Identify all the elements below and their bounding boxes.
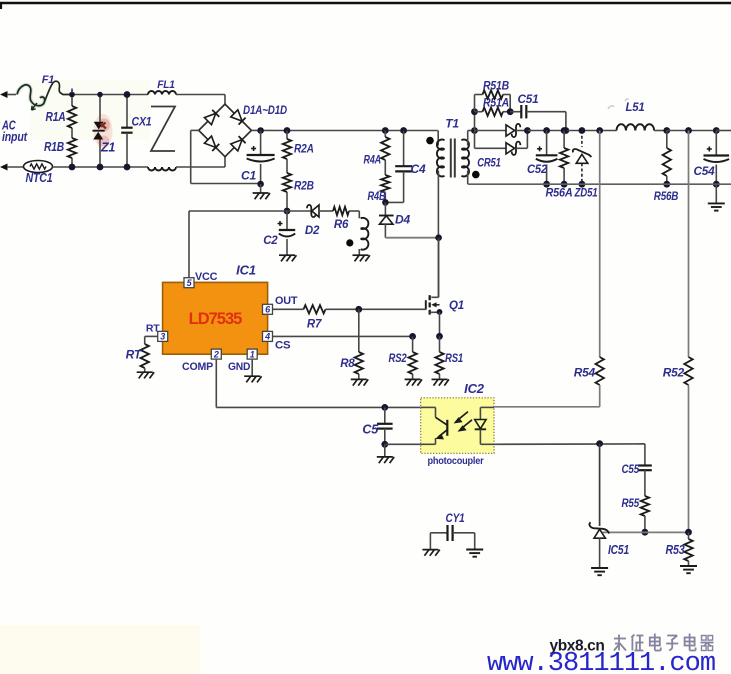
label R53 xyxy=(666,542,686,557)
junction node CR51 cathode xyxy=(524,127,531,134)
label R4B xyxy=(368,191,386,203)
label R7 xyxy=(307,319,322,331)
svg-text:C54: C54 xyxy=(694,164,716,178)
label R6 xyxy=(334,219,349,231)
svg-text:CY1: CY1 xyxy=(446,511,465,525)
inductor FL1 bottom winding xyxy=(148,167,176,171)
wire CS line xyxy=(273,335,413,337)
svg-text:CX1: CX1 xyxy=(132,117,152,129)
capacitor C5 xyxy=(377,407,393,444)
svg-text:COMP: COMP xyxy=(182,361,213,373)
ground under C54 xyxy=(708,184,725,210)
thermistor NTC1 xyxy=(24,161,73,173)
ground under RS2 xyxy=(405,379,422,385)
label R1A xyxy=(46,110,66,124)
label C54 xyxy=(694,164,716,178)
resistor R4A xyxy=(381,131,389,176)
svg-text:3: 3 xyxy=(160,332,165,342)
ground under RS1 xyxy=(432,379,449,385)
T1 core xyxy=(451,139,455,178)
junction node C52 bottom xyxy=(543,181,550,188)
resistor R56B xyxy=(663,131,671,185)
pin 6 OUT xyxy=(263,304,273,314)
junction node ZD51 bottom xyxy=(579,181,586,188)
junction node VCC feed xyxy=(284,208,291,215)
wire COMP down xyxy=(216,360,420,408)
wire R54 feed xyxy=(599,131,601,358)
svg-text:R1A: R1A xyxy=(46,110,66,124)
T1 primary phase dot xyxy=(426,137,434,145)
label R2A xyxy=(294,144,314,156)
svg-text:2: 2 xyxy=(213,349,219,359)
wire output rail xyxy=(527,130,616,132)
junction node CX1 top xyxy=(124,91,131,98)
label Z1 xyxy=(100,141,115,155)
capacitor CY1 xyxy=(430,525,474,549)
svg-text:R52: R52 xyxy=(663,366,685,380)
label CR51 xyxy=(477,156,501,170)
svg-text:R8: R8 xyxy=(340,358,355,370)
svg-text:VCC: VCC xyxy=(195,271,218,283)
junction node R56B bottom xyxy=(663,181,670,188)
junction node F1-R1A xyxy=(69,89,75,98)
ground under R53 xyxy=(680,566,697,573)
zener ZD51 xyxy=(573,131,591,185)
capacitor C55 xyxy=(638,466,652,497)
label R56B xyxy=(654,189,679,203)
resistor R2B xyxy=(283,173,291,211)
svg-text:R51B: R51B xyxy=(483,81,509,93)
wire R56B to C54 rail xyxy=(667,130,717,132)
capacitor C51 xyxy=(510,105,566,131)
junction node C52 top xyxy=(543,127,550,134)
svg-text:www.3811111.com: www.3811111.com xyxy=(487,649,715,674)
svg-text:input: input xyxy=(2,130,28,144)
wire bottom AC line xyxy=(72,166,148,168)
label NTC1 xyxy=(26,171,53,185)
label R1B xyxy=(44,140,64,154)
svg-text:NTC1: NTC1 xyxy=(26,171,53,185)
label C51 xyxy=(518,92,540,106)
svg-text:R2B: R2B xyxy=(294,181,314,193)
resistor R54 xyxy=(596,357,604,407)
junction node R56B top xyxy=(663,127,670,134)
label RS2 xyxy=(389,353,408,365)
label R55 xyxy=(622,496,640,510)
watermark ybx8.cn xyxy=(550,638,605,655)
wire R52 feed xyxy=(688,131,690,358)
label CX1 xyxy=(132,117,152,129)
wire secondary return rail xyxy=(468,183,731,185)
varistor Z1 highlight xyxy=(94,114,113,148)
junction node R2A top xyxy=(284,127,291,134)
wire CR51 lower branch xyxy=(475,131,506,149)
label C4 xyxy=(411,162,426,176)
T1 auxiliary winding xyxy=(359,211,368,255)
ground under R8 xyxy=(351,379,368,385)
svg-text:R56A: R56A xyxy=(546,186,573,200)
svg-text:C52: C52 xyxy=(527,162,547,176)
wire secondary rail left xyxy=(475,130,506,132)
junction node ZD51 top xyxy=(579,127,586,134)
label C1 xyxy=(241,169,256,183)
wire drain junction to Q1 xyxy=(438,238,440,298)
resistor R1A xyxy=(68,95,76,139)
capacitor CX1 xyxy=(121,95,132,168)
svg-text:R1B: R1B xyxy=(44,140,64,154)
svg-text:LD7535: LD7535 xyxy=(189,310,243,328)
wire L51 to R56B xyxy=(654,130,667,132)
inductor FL1 top winding xyxy=(148,91,176,94)
junction node R54 tap xyxy=(596,127,603,134)
junction node C1 top xyxy=(257,127,264,134)
label ZD51 xyxy=(574,186,598,200)
resistor RS1 xyxy=(435,336,443,378)
aux winding phase dot xyxy=(346,239,353,246)
label CY1 xyxy=(446,511,465,525)
resistor R7 xyxy=(304,305,326,313)
border frame top xyxy=(0,2,731,9)
svg-text:R4A: R4A xyxy=(364,155,382,167)
svg-text:IC51: IC51 xyxy=(608,542,629,557)
svg-text:1: 1 xyxy=(250,349,255,359)
svg-text:CS: CS xyxy=(275,340,290,352)
svg-text:C55: C55 xyxy=(622,462,640,476)
junction node Z1 bottom xyxy=(97,164,104,171)
junction node R1B bottom xyxy=(69,164,76,171)
resistor R6 xyxy=(333,207,359,215)
wire C55 branch down xyxy=(644,444,646,466)
junction node source xyxy=(436,333,443,340)
svg-text:RS1: RS1 xyxy=(445,353,463,365)
svg-text:IC2: IC2 xyxy=(464,381,485,396)
label C52 xyxy=(527,162,547,176)
label AC input xyxy=(1,119,28,145)
resistor R51B xyxy=(475,90,511,111)
resistor RS2 xyxy=(408,336,416,378)
wire snubber vertical left xyxy=(474,112,476,131)
AC input terminal top arrow xyxy=(0,91,16,98)
capacitor C52 xyxy=(536,131,558,185)
resistor RT xyxy=(141,344,149,372)
label L51 xyxy=(608,99,645,114)
inductor L51 xyxy=(617,124,655,130)
resistor R55 xyxy=(641,496,649,532)
label Q1 xyxy=(449,300,464,312)
resistor R51A xyxy=(475,108,511,116)
wire VCC vertical to pin5 xyxy=(188,211,190,277)
ground under CY1 left xyxy=(422,550,439,556)
label CS xyxy=(275,340,290,352)
svg-text:C51: C51 xyxy=(518,92,540,106)
ground under IC51 xyxy=(591,568,608,575)
bridge diode D1A (top-left edge) xyxy=(204,110,219,125)
svg-text:C5: C5 xyxy=(362,423,379,437)
label COMP xyxy=(182,361,213,373)
wire T1 secondary bottom feed xyxy=(467,171,469,185)
label D2 xyxy=(305,225,320,237)
wire rail to right edge xyxy=(716,130,731,132)
svg-text:GND: GND xyxy=(228,361,251,373)
label R8 xyxy=(340,358,355,370)
capacitor C4 xyxy=(385,131,412,203)
label IC1 xyxy=(236,263,256,278)
junction node RS2 top xyxy=(409,333,416,340)
rectifier CR51 top diode xyxy=(506,124,527,137)
label RS1 xyxy=(445,353,463,365)
svg-text:R7: R7 xyxy=(307,319,322,331)
photocoupler transistor xyxy=(421,407,448,444)
svg-text:C1: C1 xyxy=(241,169,256,183)
wire pin6 to R7 xyxy=(273,308,304,310)
label R51B xyxy=(483,81,509,93)
junction node R4A top xyxy=(382,127,389,134)
wire T1 secondary top feed xyxy=(468,131,475,146)
pin 3 RT xyxy=(158,331,168,341)
label R2B xyxy=(294,181,314,193)
label R52 xyxy=(663,366,685,380)
FL1 core Z symbol xyxy=(151,107,175,152)
junction node C5 bottom xyxy=(381,441,388,448)
wire T1 primary to drain xyxy=(437,171,439,298)
junction node IC51 top xyxy=(596,440,603,447)
fuse F1 xyxy=(17,81,72,110)
junction node secondary top xyxy=(471,127,478,134)
junction node Z1 top xyxy=(97,92,103,98)
pin 5 VCC xyxy=(184,278,194,288)
ground under C5 xyxy=(377,444,394,463)
wire R7 to gate node xyxy=(326,308,359,310)
capacitor C1 xyxy=(247,130,275,183)
IC1 text LD7535 xyxy=(189,310,243,328)
label GND xyxy=(228,361,251,373)
ground under C2 xyxy=(279,255,296,261)
svg-text:RS2: RS2 xyxy=(389,353,408,365)
svg-text:R55: R55 xyxy=(622,496,640,510)
bridge diode D1C (bottom-left edge) xyxy=(204,136,219,151)
bridge diode D1B (top-right edge) xyxy=(231,110,246,125)
svg-text:R6: R6 xyxy=(334,219,349,231)
T1 secondary phase dot xyxy=(472,171,480,179)
junction node C54 bottom xyxy=(713,181,720,188)
junction node C54 top xyxy=(713,127,720,134)
junction node R8 top xyxy=(355,306,362,313)
svg-text:R2A: R2A xyxy=(294,144,314,156)
label R51A xyxy=(483,98,509,110)
ground under aux winding xyxy=(353,255,370,261)
label F1 xyxy=(42,74,55,86)
svg-text:Q1: Q1 xyxy=(449,300,464,312)
label R56A xyxy=(546,186,573,200)
svg-text:photocoupler: photocoupler xyxy=(428,456,484,467)
junction node drain-D4 xyxy=(435,234,442,241)
junction node C4 top xyxy=(400,127,407,134)
label VCC xyxy=(195,271,218,283)
wire gate from R7 xyxy=(359,308,426,310)
svg-text:C4: C4 xyxy=(411,162,426,176)
label RT pin xyxy=(146,323,160,335)
bridge diode D1D (bottom-right edge) xyxy=(231,136,246,151)
label R54 xyxy=(574,366,596,380)
AC input terminal bottom arrow xyxy=(0,164,24,171)
junction node C1 bottom xyxy=(257,181,264,188)
wire bottom AC to bridge xyxy=(176,157,225,167)
svg-text:RT: RT xyxy=(126,348,143,362)
svg-text:RT: RT xyxy=(146,323,160,335)
junction node snubber left xyxy=(471,108,478,115)
svg-text:FL1: FL1 xyxy=(157,79,175,91)
label RT xyxy=(126,348,143,362)
junction node C51 right xyxy=(563,127,570,134)
diode D4 xyxy=(379,202,394,237)
junction node R56A bottom xyxy=(561,181,568,188)
svg-text:Z1: Z1 xyxy=(100,141,115,155)
IC U1 LD7535 body xyxy=(163,282,268,354)
wire VCC horizontal xyxy=(189,210,287,212)
wire top AC line xyxy=(72,94,148,96)
label photocoupler xyxy=(428,456,484,467)
ground under CY1 right xyxy=(466,550,483,557)
resistor R1B xyxy=(68,138,76,167)
label OUT xyxy=(275,295,298,307)
junction node R52-R53 xyxy=(685,529,692,536)
wire main DC rail xyxy=(287,130,438,132)
resistor R8 xyxy=(355,309,363,378)
resistor R2A xyxy=(283,131,291,174)
wire pin1 to ground xyxy=(251,360,253,376)
label C5 xyxy=(362,423,379,437)
varistor Z1 xyxy=(93,95,107,168)
pin 4 CS xyxy=(263,331,273,341)
watermark chinese text xyxy=(614,634,714,651)
wire R54 to coupler xyxy=(494,406,600,408)
shunt regulator IC51 xyxy=(589,444,609,567)
label C2 xyxy=(263,235,278,247)
watermark url xyxy=(487,649,715,674)
wire top AC to bridge xyxy=(176,95,225,105)
label FL1 xyxy=(157,79,175,91)
junction node R52 tap xyxy=(685,127,692,134)
svg-text:ZD51: ZD51 xyxy=(574,186,598,200)
svg-text:T1: T1 xyxy=(445,117,459,131)
svg-text:R53: R53 xyxy=(666,542,686,557)
pin 2 COMP xyxy=(211,349,221,359)
junction node R56A top xyxy=(561,127,568,134)
junction node C5 top xyxy=(381,404,388,411)
wire C5 bottom to coupler xyxy=(385,443,421,445)
svg-text:F1: F1 xyxy=(42,74,55,86)
resistor R56A xyxy=(560,131,568,185)
svg-text:R56B: R56B xyxy=(654,189,679,203)
wire bridge minus loop xyxy=(191,130,261,183)
diode D2 xyxy=(287,205,333,217)
wire pin3 to RT xyxy=(145,336,158,344)
svg-text:OUT: OUT xyxy=(275,295,298,307)
svg-text:IC1: IC1 xyxy=(236,263,256,278)
label D4 xyxy=(395,213,410,227)
mosfet Q1 xyxy=(426,295,443,336)
photocoupler LED xyxy=(475,407,494,444)
photocoupler light arrows xyxy=(454,412,473,432)
wire reference line xyxy=(603,531,689,533)
ground under RT xyxy=(137,372,154,378)
wire bridge plus to rail xyxy=(251,129,287,131)
svg-text:D4: D4 xyxy=(395,213,410,227)
T1 secondary winding xyxy=(461,140,469,177)
resistor R53 xyxy=(684,532,692,565)
T1 primary winding xyxy=(437,140,445,177)
label IC51 xyxy=(608,542,629,557)
label C55 xyxy=(622,462,640,476)
svg-text:D2: D2 xyxy=(305,225,320,237)
junction node snubber mid xyxy=(507,108,514,115)
wire D4 to drain node xyxy=(385,237,439,239)
resistor R52 xyxy=(684,357,692,532)
label D1A~D1D xyxy=(243,103,287,117)
capacitor C2 xyxy=(278,211,296,255)
junction node CX1 bottom xyxy=(124,164,131,171)
wire LED top out xyxy=(480,406,494,408)
wire LED cathode line xyxy=(494,443,645,445)
ground under GND pin xyxy=(244,376,261,382)
IC2 photocoupler body xyxy=(421,398,494,454)
capacitor C54 xyxy=(704,131,730,185)
wire rail to T1 primary xyxy=(437,131,439,146)
svg-text:4: 4 xyxy=(264,332,270,342)
junction node D4 top xyxy=(382,199,389,206)
svg-text:L51: L51 xyxy=(626,100,645,114)
pin 1 GND xyxy=(247,349,257,359)
rectifier CR51 bottom diode xyxy=(506,131,527,155)
label IC2 xyxy=(464,381,485,396)
label T1 xyxy=(445,117,459,131)
svg-text:R54: R54 xyxy=(574,366,596,380)
resistor R4B xyxy=(381,175,389,202)
label R4A xyxy=(364,155,382,167)
bridge diamond D1A~D1D frame xyxy=(199,104,252,157)
svg-text:CR51: CR51 xyxy=(477,156,501,170)
junction node R55 bottom xyxy=(642,529,649,536)
ground under C1 xyxy=(253,184,270,199)
svg-text:D1A~D1D: D1A~D1D xyxy=(243,103,287,117)
svg-text:C2: C2 xyxy=(263,235,278,247)
